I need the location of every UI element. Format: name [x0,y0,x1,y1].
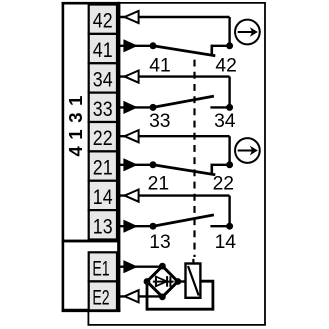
svg-text:41: 41 [93,38,113,62]
svg-text:34: 34 [214,111,236,132]
svg-text:42: 42 [93,9,113,33]
svg-text:4131: 4131 [65,89,86,157]
svg-text:21: 21 [93,156,113,180]
svg-text:E1: E1 [92,257,109,281]
svg-text:22: 22 [93,126,113,150]
svg-text:34: 34 [93,67,113,91]
svg-text:21: 21 [148,173,169,194]
svg-text:22: 22 [213,173,234,194]
svg-text:42: 42 [215,56,236,77]
svg-text:14: 14 [215,232,237,253]
svg-text:13: 13 [149,232,170,253]
svg-text:33: 33 [149,111,170,132]
svg-text:41: 41 [149,56,170,77]
svg-text:13: 13 [93,214,113,238]
svg-text:E2: E2 [92,285,109,309]
svg-text:33: 33 [93,97,113,121]
svg-text:14: 14 [93,185,113,209]
